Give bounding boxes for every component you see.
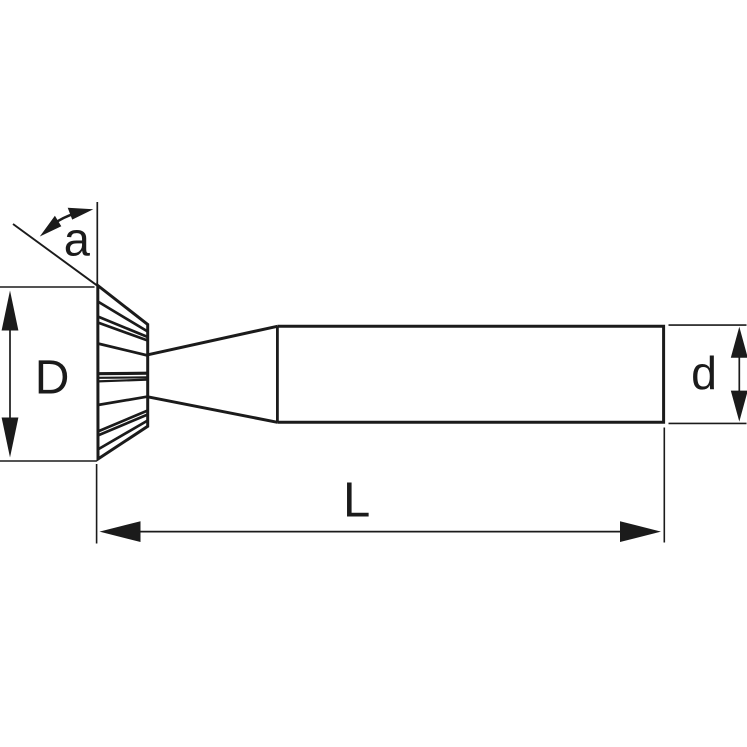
svg-text:a: a [64,213,91,266]
dimension D arrowhead up [2,291,19,331]
tooth line H [98,421,148,450]
tooth line E2 [98,376,148,379]
cutter head silhouette [98,286,148,460]
tooth line F [98,397,148,405]
dimension d arrow shaft [738,355,740,393]
dimension D bottom extension line [0,460,97,462]
dimension L right extension line [663,428,665,543]
svg-text:D: D [35,351,70,404]
arc arrowhead upper-right [68,208,94,220]
dimension d bottom extension line [669,422,747,424]
dimension D top extension line [0,286,95,288]
tooth line T2 [98,317,148,338]
dimension d arrowhead down [731,391,747,422]
neck-shank junction line [276,326,279,422]
dimension D arrow shaft [9,328,11,420]
dimension D arrowhead down [2,418,19,458]
neck top line [148,326,278,355]
dimension d top extension line [669,324,747,326]
svg-text:d: d [691,347,717,399]
dimension d arrowhead up [731,327,747,358]
dimension L left extension line [96,464,98,544]
dimension L line shaft [138,531,622,533]
tooth line T3 [98,323,148,341]
arc arrowhead lower-left [40,216,62,237]
tooth line T4 [98,344,148,356]
slanted reference line (cutter taper extension) [13,224,98,286]
dimension L arrowhead right [620,521,661,542]
angle arc for a [54,214,74,224]
tooth line E1 [98,372,148,376]
svg-text:L: L [343,474,370,528]
vertical reference line (angle leg) [96,202,98,285]
tooth line E3 [98,380,148,382]
tooth line G2 [98,415,148,436]
tooth line T1 [98,302,148,332]
dimension L arrowhead left [100,521,141,542]
neck bottom line [148,397,278,423]
tooth line G1 [98,411,148,432]
shank outline [277,326,663,422]
